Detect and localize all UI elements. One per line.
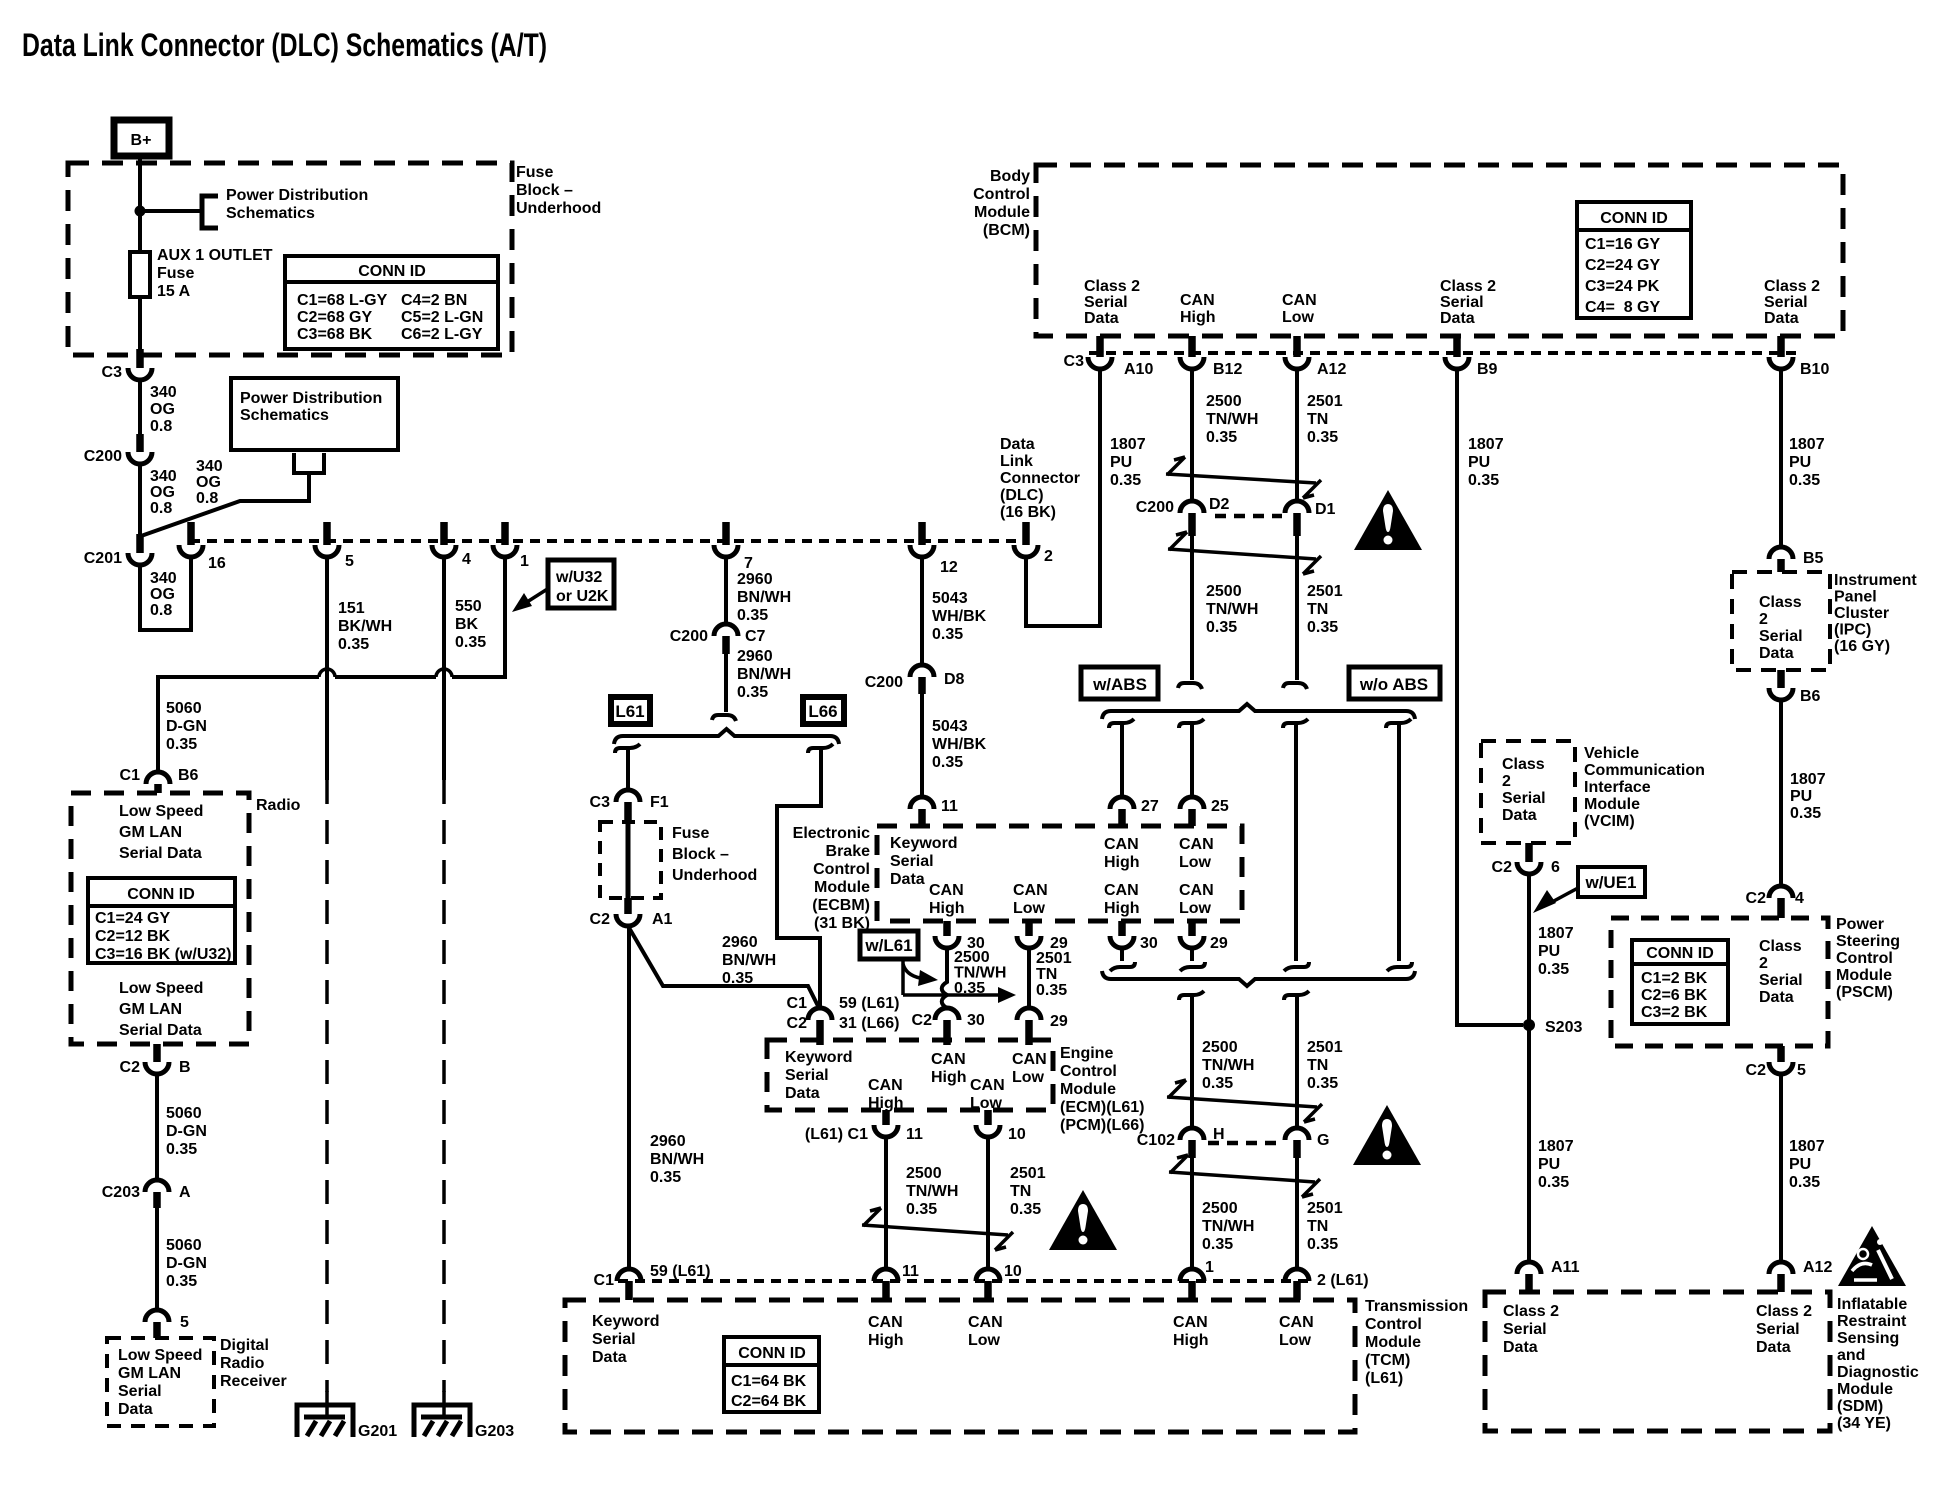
svg-text:CONN ID: CONN ID [1600,210,1668,227]
ECBM CAN High text lower left [929,882,965,917]
svg-text:1807: 1807 [1789,1138,1825,1155]
svg-text:Link: Link [1000,453,1033,470]
svg-text:GM LAN: GM LAN [119,1001,182,1018]
label 2960 BN/WH 0.35 keyword [650,1133,704,1186]
svg-text:CONN ID: CONN ID [358,263,426,280]
label Instrument Panel Cluster IPC 16 GY [1834,572,1917,655]
option box L61 [611,697,650,724]
svg-text:2960: 2960 [722,934,758,951]
svg-text:High: High [1173,1332,1209,1349]
label 340 OG 0.8 [150,468,177,517]
svg-text:B+: B+ [131,132,152,149]
svg-text:4: 4 [1795,890,1804,907]
svg-text:29: 29 [1050,1013,1068,1030]
wire D1 down [1295,536,1299,680]
svg-text:2501: 2501 [1307,1200,1343,1217]
svg-text:L66: L66 [808,702,837,721]
svg-text:Serial: Serial [1756,1321,1800,1338]
wire L61 branch to F1 [626,748,630,790]
svg-text:Data: Data [1084,310,1119,327]
radio low speed GM LAN text top [119,803,203,862]
connector A12 [1285,336,1346,378]
svg-text:0.35: 0.35 [1206,429,1237,446]
svg-text:Control: Control [813,861,870,878]
svg-text:D1: D1 [1315,501,1336,518]
svg-text:Serial: Serial [1502,790,1546,807]
svg-text:Panel: Panel [1834,589,1877,606]
wire w/o ABS CAN High bypass [1294,723,1298,961]
svg-text:CONN ID: CONN ID [1646,945,1714,962]
dashed wire to G203 [442,780,446,1392]
svg-text:2501: 2501 [1036,950,1072,967]
connector C2 5 PSCM bottom [1746,1046,1806,1079]
connector C1 C2 59 31 ECM keyword [787,995,900,1045]
svg-text:C1: C1 [787,995,808,1012]
TCM CAN High text 2 [1173,1314,1209,1349]
svg-text:59 (L61): 59 (L61) [839,995,899,1012]
svg-text:TN: TN [1307,411,1328,428]
arrow to 30 wire [903,964,920,978]
label Digital Radio Receiver [220,1337,287,1390]
connector TCM 10 [976,1263,1022,1300]
connector B5 IPC [1769,547,1824,572]
svg-text:0.35: 0.35 [166,736,197,753]
svg-text:340: 340 [150,468,177,485]
hook bypass low bottom [1387,962,1412,971]
svg-text:C2: C2 [120,1059,141,1076]
svg-text:B12: B12 [1213,361,1242,378]
svg-text:C2=68 GY: C2=68 GY [297,309,372,326]
svg-text:C3=16 BK (w/U32): C3=16 BK (w/U32) [95,946,232,963]
svg-text:2500: 2500 [906,1165,942,1182]
svg-text:Serial: Serial [1764,294,1808,311]
airbag warning triangle [1838,1226,1906,1286]
svg-text:0.35: 0.35 [166,1141,197,1158]
svg-text:2: 2 [1759,611,1768,628]
connector A11 SDM [1517,1259,1580,1292]
svg-text:Data Link Connector (DLC) Sche: Data Link Connector (DLC) Schematics (A/… [22,27,547,63]
svg-text:1807: 1807 [1110,436,1146,453]
svg-text:C2=12 BK: C2=12 BK [95,928,171,945]
svg-text:CAN: CAN [868,1077,903,1094]
svg-text:PU: PU [1110,454,1132,471]
wire B+ to fuse [138,157,142,352]
svg-text:27: 27 [1141,798,1159,815]
label 2960 BN/WH 0.35 [737,648,791,701]
svg-text:Radio: Radio [256,797,301,814]
hook below merge brace high [1179,991,1204,1000]
SDM class 2 serial data text left [1503,1303,1559,1356]
svg-text:15 A: 15 A [157,283,191,300]
TCM CAN High text [868,1314,904,1349]
warning triangle 3 [1049,1190,1117,1250]
callout w/U32 or U2K [548,560,614,608]
connector B10 [1769,336,1829,378]
svg-text:Block –: Block – [672,846,729,863]
svg-text:C3: C3 [590,794,611,811]
connector B12 [1180,336,1242,378]
label 2500 TN/WH 0.35 [1202,1200,1254,1253]
svg-text:0.8: 0.8 [150,500,172,517]
svg-text:B5: B5 [1803,550,1824,567]
svg-text:151: 151 [338,600,365,617]
connector ECBM 30 [935,921,985,952]
svg-text:C1=64 BK: C1=64 BK [731,1373,807,1390]
svg-text:Diagnostic: Diagnostic [1837,1364,1919,1381]
svg-text:Serial: Serial [1759,972,1803,989]
svg-text:0.35: 0.35 [455,634,486,651]
svg-text:Module: Module [1584,796,1640,813]
svg-text:w/L61: w/L61 [864,936,912,955]
svg-text:Power Distribution: Power Distribution [226,187,368,204]
svg-text:10: 10 [1004,1263,1022,1280]
PSCM box [1611,918,1828,1046]
wire D8 to ECBM pin 11 [920,694,924,797]
svg-text:C200: C200 [670,628,708,645]
ECBM CAN High text lower [1104,882,1140,917]
svg-text:Schematics: Schematics [226,205,315,222]
CONN ID table radio [88,878,235,963]
label 550 BK 0.35 [455,598,486,651]
ECBM CAN Low text lower left [1013,882,1048,917]
svg-text:25: 25 [1211,798,1229,815]
hook branch 27 [1109,719,1134,728]
svg-text:Instrument: Instrument [1834,572,1917,589]
svg-text:Module: Module [974,204,1030,221]
svg-text:or U2K: or U2K [556,588,609,605]
svg-text:TN: TN [1307,1218,1328,1235]
svg-text:4: 4 [462,551,471,568]
CONN ID table TCM [724,1337,819,1412]
connector TCM 2 [1285,1269,1369,1300]
label 2501 TN 0.35 [1036,950,1072,999]
svg-text:0.35: 0.35 [1110,472,1141,489]
svg-text:C2=64 BK: C2=64 BK [731,1393,807,1410]
svg-text:Radio: Radio [220,1355,265,1372]
wire C2 5 to A12 [1779,1074,1783,1262]
svg-text:Module: Module [1365,1334,1421,1351]
svg-text:5060: 5060 [166,1105,202,1122]
svg-text:340: 340 [150,570,177,587]
TCM CAN Low text 2 [1279,1314,1314,1349]
connector C2 B radio bottom [120,1044,191,1076]
svg-text:Data: Data [1440,310,1475,327]
wire B12 CAN High to D2 [1190,369,1194,501]
svg-text:C5=2 L-GN: C5=2 L-GN [401,309,483,326]
connector TCM C1 59 [594,1263,711,1300]
svg-text:5: 5 [180,1314,189,1331]
svg-text:0.35: 0.35 [1789,1174,1820,1191]
svg-text:Control: Control [973,186,1030,203]
callout w/L61 [860,931,918,959]
connector ECBM 30 right [1110,921,1158,971]
svg-text:5: 5 [345,553,354,570]
svg-text:D-GN: D-GN [166,718,207,735]
svg-text:30: 30 [967,1012,985,1029]
wire to C102 H [1190,995,1194,1128]
svg-text:Restraint: Restraint [1837,1313,1907,1330]
wire pin 7 to C200 C7 [724,557,728,624]
svg-text:1: 1 [520,553,529,570]
svg-text:11: 11 [941,798,958,815]
ECM CAN Low lower [970,1077,1005,1112]
svg-text:0.8: 0.8 [196,490,218,507]
svg-text:BN/WH: BN/WH [650,1151,704,1168]
svg-text:C1=24 GY: C1=24 GY [95,910,170,927]
svg-text:High: High [868,1095,904,1112]
svg-text:w/UE1: w/UE1 [1584,873,1636,892]
electronic brake control module box [877,826,1242,921]
crossover twisted pair 5 [862,1225,1008,1235]
wire G to TCM 2 [1295,1158,1299,1269]
connector ECBM 29 right [1180,921,1228,971]
connector C1 B6 radio [120,767,199,793]
DLC pin 12 [910,522,958,576]
label 1807 PU 0.35 to A11 [1538,1138,1574,1191]
svg-text:TN/WH: TN/WH [954,965,1006,982]
crossover twisted pair 1 [1166,474,1316,483]
svg-text:Control: Control [1365,1316,1422,1333]
arrow to 29 wire [903,993,1000,997]
svg-text:H: H [1213,1126,1225,1143]
svg-text:31 (L66): 31 (L66) [839,1015,899,1032]
svg-text:0.35: 0.35 [338,636,369,653]
DLC pin 1 [493,522,529,570]
svg-text:High: High [1104,854,1140,871]
connector TCM 11 [874,1263,919,1300]
svg-text:C1: C1 [594,1272,615,1289]
wire H to TCM 1 [1190,1158,1194,1269]
svg-text:C2: C2 [1746,890,1767,907]
wire to C102 G [1295,995,1299,1128]
svg-text:550: 550 [455,598,482,615]
connector C201 [84,534,152,567]
svg-text:D2: D2 [1209,496,1230,513]
svg-text:Low Speed: Low Speed [118,1347,202,1364]
connector C200 D8 [865,665,965,694]
svg-text:TN: TN [1307,1057,1328,1074]
SDM class 2 serial data text right [1756,1303,1812,1356]
ECM CAN Low upper [1012,1051,1047,1086]
connector C203 A [102,1180,191,1208]
svg-text:0.35: 0.35 [1307,1236,1338,1253]
svg-text:1807: 1807 [1789,436,1825,453]
wire ECM 10 to TCM 10 [986,1137,990,1269]
svg-text:0.35: 0.35 [1202,1075,1233,1092]
svg-text:0.35: 0.35 [737,684,768,701]
connector B9 [1445,336,1498,378]
ECBM keyword serial data text [890,835,958,888]
svg-text:PU: PU [1468,454,1490,471]
svg-text:CAN: CAN [1279,1314,1314,1331]
PSCM class 2 serial data text [1759,938,1803,1006]
svg-text:5043: 5043 [932,590,968,607]
BCM CAN Low text [1282,292,1317,326]
svg-text:Module: Module [814,879,870,896]
svg-text:B6: B6 [1800,688,1821,705]
svg-text:Steering: Steering [1836,933,1900,950]
svg-text:PU: PU [1538,943,1560,960]
digital radio receiver text [118,1347,202,1418]
svg-text:C200: C200 [865,674,903,691]
arrow w/U32 [527,588,549,602]
end cap D1 wire [1283,683,1307,689]
wire C203 to digital radio receiver [155,1208,159,1310]
svg-text:C7: C7 [745,628,766,645]
svg-text:TN: TN [1036,966,1057,983]
ECM CAN High lower [868,1077,904,1112]
svg-text:Data: Data [1759,645,1794,662]
svg-text:PU: PU [1538,1156,1560,1173]
svg-text:0.35: 0.35 [1468,472,1499,489]
svg-text:29: 29 [1210,935,1228,952]
label 5060 D-GN 0.35 [166,1237,207,1290]
svg-text:2: 2 [1502,773,1511,790]
svg-text:BN/WH: BN/WH [737,666,791,683]
hook branch 25 [1179,719,1204,728]
svg-text:Keyword: Keyword [785,1049,853,1066]
label 2501 TN 0.35 below D1 [1307,583,1343,636]
svg-text:CAN: CAN [1104,836,1139,853]
svg-text:30: 30 [1140,935,1158,952]
svg-text:Serial: Serial [118,1383,162,1400]
svg-text:CAN: CAN [1104,882,1139,899]
svg-text:Serial: Serial [1503,1321,1547,1338]
svg-text:Serial: Serial [890,853,934,870]
svg-text:Data: Data [890,871,925,888]
svg-text:0.8: 0.8 [150,418,172,435]
svg-text:CAN: CAN [968,1314,1003,1331]
svg-text:C2: C2 [1746,1062,1767,1079]
engine control module box [767,1040,1053,1110]
svg-text:WH/BK: WH/BK [932,736,987,753]
svg-text:D8: D8 [944,671,965,688]
BCM CAN High text [1180,292,1216,326]
svg-text:5043: 5043 [932,718,968,735]
svg-text:Body: Body [990,168,1030,185]
svg-text:A12: A12 [1803,1259,1832,1276]
svg-text:Control: Control [1060,1063,1117,1080]
svg-text:OG: OG [196,474,221,491]
svg-text:CAN: CAN [929,882,964,899]
svg-text:Class: Class [1502,756,1545,773]
svg-text:CAN: CAN [1012,1051,1047,1068]
fuse block underhood box [68,163,512,355]
label AUX 1 OUTLET Fuse 15 A [157,247,273,300]
bracket under power distribution box [294,453,324,473]
svg-text:w/o ABS: w/o ABS [1359,675,1428,694]
svg-text:Electronic: Electronic [793,825,870,842]
connector C200 C7 [670,624,766,654]
option box L66 [803,697,844,724]
wire to ECBM 27 [1120,723,1124,797]
label 2501 TN 0.35 [1307,1200,1343,1253]
svg-text:Module: Module [1060,1081,1116,1098]
svg-text:0.35: 0.35 [1010,1201,1041,1218]
wire C201 to DLC pin 16 [140,557,191,630]
svg-text:Low Speed: Low Speed [119,803,203,820]
connector ECM 29 [1017,1008,1068,1045]
connector C2 6 VCIM [1492,843,1560,876]
svg-text:Low: Low [1179,900,1212,917]
hook branch w/o ABS low [1386,719,1411,728]
wire B6 to C2 4 [1779,700,1783,886]
svg-text:0.35: 0.35 [932,754,963,771]
svg-text:AUX 1 OUTLET: AUX 1 OUTLET [157,247,273,264]
svg-text:2960: 2960 [737,648,773,665]
svg-text:G201: G201 [358,1423,397,1440]
connector C2 4 PSCM [1746,886,1804,918]
DLC pin 16 [179,522,226,572]
label 2500 TN/WH 0.35 [906,1165,958,1218]
connector C2 A1 [590,898,673,928]
svg-text:OG: OG [150,401,175,418]
label 1807 PU 0.35 [1789,1138,1825,1191]
DLC pin 7 [714,522,753,572]
svg-text:(L61) C1: (L61) C1 [805,1126,868,1143]
label Body Control Module BCM [973,168,1030,239]
wire ECBM 29 to ECM 29 [1027,948,1031,1008]
connector C102 H [1137,1126,1225,1158]
wire power distribution branch to C201 [141,473,309,536]
svg-text:Vehicle: Vehicle [1584,745,1639,762]
svg-text:B6: B6 [178,767,199,784]
svg-text:Power Distribution: Power Distribution [240,390,382,407]
svg-text:0.35: 0.35 [1307,619,1338,636]
svg-text:GM LAN: GM LAN [119,824,182,841]
svg-text:C203: C203 [102,1184,140,1201]
svg-text:Interface: Interface [1584,779,1651,796]
connector ECBM 27 [1110,797,1159,826]
svg-text:0.35: 0.35 [932,626,963,643]
svg-text:High: High [929,900,965,917]
svg-text:(TCM): (TCM) [1365,1352,1410,1369]
svg-text:C2: C2 [590,911,611,928]
svg-text:Brake: Brake [826,843,871,860]
DLC pin 4 [432,522,471,568]
svg-text:(L61): (L61) [1365,1370,1403,1387]
wire A1 keyword serial data down to TCM [627,926,631,1269]
wire L66 branch [777,748,821,1008]
svg-text:Keyword: Keyword [890,835,958,852]
svg-text:High: High [1180,309,1216,326]
wire A12 CAN Low to D1 [1295,369,1299,501]
svg-text:Data: Data [1759,989,1794,1006]
svg-text:Keyword: Keyword [592,1313,660,1330]
svg-text:2 (L61): 2 (L61) [1317,1272,1369,1289]
svg-text:12: 12 [940,559,958,576]
svg-text:D-GN: D-GN [166,1123,207,1140]
svg-text:GM LAN: GM LAN [118,1365,181,1382]
hook branch w/o ABS high [1283,719,1308,728]
label Transmission Control Module TCM L61 [1365,1298,1468,1387]
fuse block underhood small box [600,822,661,898]
svg-text:Class 2: Class 2 [1503,1303,1559,1320]
svg-text:Underhood: Underhood [672,867,757,884]
connector C200 [84,434,152,465]
svg-text:BK: BK [455,616,479,633]
crossover twisted pair 2 [1168,549,1316,559]
svg-text:Data: Data [785,1085,820,1102]
svg-text:w/ABS: w/ABS [1092,675,1147,694]
svg-text:Data: Data [1502,807,1537,824]
IPC box [1732,572,1830,670]
svg-text:Data: Data [592,1349,627,1366]
svg-text:Low: Low [1282,309,1315,326]
label 1807 PU 0.35 [1538,925,1574,978]
svg-text:Module: Module [1836,967,1892,984]
TCM CAN Low text [968,1314,1003,1349]
